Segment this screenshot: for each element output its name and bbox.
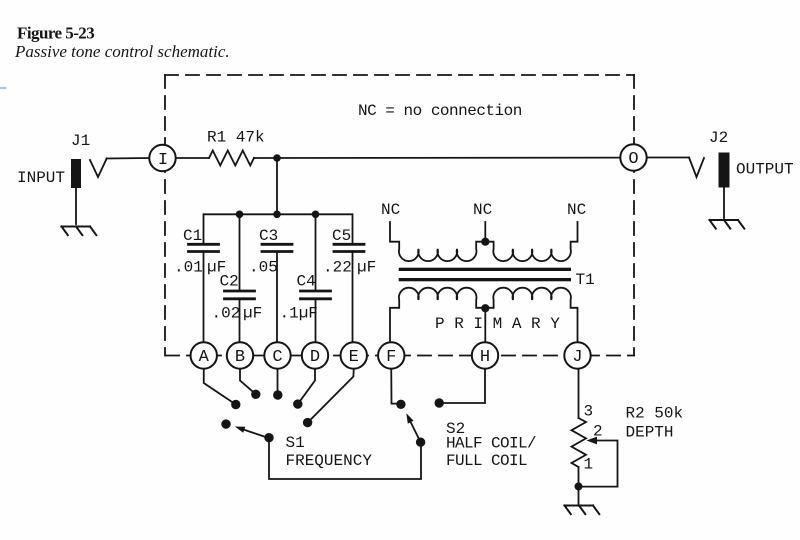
svg-text:NC: NC [567,201,586,219]
transformer T1 secondary winding [390,222,578,261]
svg-text:C: C [272,348,282,367]
svg-text:J2: J2 [709,129,728,147]
svg-text:T1: T1 [576,271,595,289]
svg-text:NC: NC [473,201,492,219]
wire R1 to node O [254,157,623,159]
wire S1 pivot to S2 pivot [269,438,421,479]
wire C1 to node A [203,252,205,346]
wire O to plug J2 [647,157,689,159]
S1 contact D dot [293,399,302,408]
svg-text:µF: µF [243,305,262,323]
svg-text:S1: S1 [286,434,305,452]
wire C5 to node E [352,252,354,346]
node F [378,342,404,368]
margin tick [0,87,6,89]
svg-text:.02: .02 [212,305,241,323]
jack J1 body [71,159,81,188]
svg-text:FREQUENCY: FREQUENCY [286,452,373,470]
plug tip J1 [90,159,107,178]
wire C2 to node B [239,299,241,346]
svg-text:3: 3 [584,403,594,421]
capacitor C1 [189,244,219,251]
svg-text:C1: C1 [183,227,202,245]
svg-text:P R I M A R Y: P R I M A R Y [435,315,560,333]
node C [264,342,290,368]
wire C3 to node C [276,252,278,346]
svg-text:C4: C4 [297,273,316,291]
S2 contact H dot [435,398,444,407]
wire I to R1 [176,157,209,159]
ground (R2) [565,506,600,515]
svg-text:.05: .05 [249,259,278,277]
svg-text:O: O [628,150,638,169]
S2 wire from H [443,369,485,403]
ground (J1) [62,227,97,236]
S1 wire from A [204,369,236,405]
svg-text:DEPTH: DEPTH [626,424,674,442]
capacitor C4 [315,214,317,291]
wire J1 to ground [75,188,77,224]
S1 wire from C [277,369,279,395]
node E [341,342,367,368]
svg-text:C5: C5 [332,227,351,245]
svg-text:HALF COIL/: HALF COIL/ [446,435,536,453]
svg-text:R1 47k: R1 47k [207,129,265,147]
svg-text:C2: C2 [220,273,239,291]
svg-text:NC = no connection: NC = no connection [358,102,522,120]
primary center tap [484,308,486,346]
node J [564,342,590,368]
svg-text:H: H [480,348,490,367]
svg-text:A: A [199,348,210,367]
svg-text:F: F [386,348,396,367]
node A [191,342,217,368]
junction dot top [273,154,281,162]
wire J to R2 [578,369,580,418]
dashed enclosure right edge [633,75,635,356]
node H [472,342,498,368]
resistor R1 [209,151,254,166]
node O [620,144,646,170]
wire plug to node I [107,157,150,160]
S1 wire from B [240,369,256,395]
dashed enclosure left edge [164,75,166,356]
S1 contact A dot [231,400,240,409]
svg-text:FULL COIL: FULL COIL [446,452,527,470]
ground (J2) [710,220,745,229]
svg-text:J1: J1 [71,132,90,150]
wire J2 to ground [723,188,725,219]
bus junction dot B [236,211,244,219]
S2 wiper arrow [411,422,421,442]
transformer T1 core [399,268,571,282]
node I [149,145,175,171]
plug tip J2 [689,158,704,178]
S1 contact B dot [251,390,260,399]
S2 contact F dot [396,400,405,409]
S1 wire from E [308,369,354,423]
svg-text:D: D [310,348,320,367]
svg-text:C3: C3 [259,227,278,245]
S1 open contact dot [221,419,230,428]
S2 wire from F [391,369,397,404]
R2 wiper arm wire [583,441,618,487]
svg-text:B: B [235,348,245,367]
capacitor C5 [334,244,364,251]
svg-text:R2 50k: R2 50k [626,405,684,423]
svg-text:J: J [572,348,582,367]
S1 contact C dot [273,390,282,399]
secondary center tap [484,222,486,242]
wire R2 to ground [578,467,580,504]
node D [302,342,328,368]
wire C4 to node D [315,299,317,346]
svg-text:.1µF: .1µF [280,305,318,323]
svg-text:INPUT: INPUT [17,169,65,187]
bus junction dot D [312,211,320,219]
S1 wiper arrow [244,430,268,438]
svg-text:I: I [158,151,168,170]
svg-text:Passive tone control schematic: Passive tone control schematic. [14,42,230,61]
R2 bottom junction dot [575,482,583,490]
svg-text:.22: .22 [323,259,352,277]
node B [227,342,253,368]
svg-text:µF: µF [357,259,376,277]
capacitor C2 [239,214,241,291]
jack J2 body [719,153,730,188]
wire junction to bus [276,158,278,214]
svg-text:Figure 5-23: Figure 5-23 [17,24,94,43]
svg-text:E: E [349,348,359,367]
S2 pivot dot [416,438,425,447]
S1 wire from D [298,369,315,404]
dashed enclosure top edge [165,74,634,76]
S1 contact E dot [303,418,312,427]
bus junction dot C [273,211,281,219]
potentiometer R2 [572,418,587,467]
S1 pivot dot [264,433,273,442]
svg-text:NC: NC [381,201,400,219]
svg-text:.01: .01 [174,259,203,277]
svg-text:OUTPUT: OUTPUT [736,161,794,179]
transformer T1 primary winding [390,288,578,346]
capacitor C3 [262,244,292,251]
dashed enclosure bottom edge [166,355,634,357]
capacitor bus wire [204,214,353,244]
svg-text:1: 1 [584,456,594,474]
